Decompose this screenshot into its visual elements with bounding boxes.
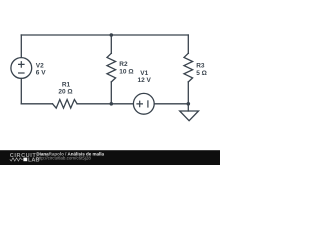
label V2 <box>36 62 44 69</box>
svg-text:V1: V1 <box>140 70 148 77</box>
wire top rail from node A to R3 branch <box>111 34 188 36</box>
label R1 <box>62 81 71 88</box>
svg-text:R3: R3 <box>196 63 205 70</box>
CircuitLab logo text CIRCUIT <box>10 153 37 159</box>
value label 6 V <box>36 70 46 77</box>
svg-text:12 V: 12 V <box>138 77 152 84</box>
node B junction dot (bottom middle) <box>110 102 114 106</box>
CircuitLab logo resistor squiggle <box>10 158 23 161</box>
wire V2 bottom stub <box>20 78 22 103</box>
CircuitLab logo text LAB <box>28 157 40 163</box>
label R3 <box>196 63 205 70</box>
value label 12 V <box>138 77 152 84</box>
wire R3 branch upper stub <box>187 35 189 53</box>
node C junction dot (ground) <box>187 102 191 106</box>
value label 10 Ω <box>119 68 133 75</box>
footer attribution line 2: circuit URL <box>36 155 91 160</box>
footer attribution line 1: username and circuit title <box>36 151 104 156</box>
wire bottom-left from V2 to R1 <box>21 103 52 105</box>
wire R3 branch lower stub <box>187 82 189 104</box>
footer bar <box>0 150 220 165</box>
label V1 <box>140 70 148 77</box>
value label 5 Ω <box>196 70 207 77</box>
svg-text:V2: V2 <box>36 62 44 69</box>
voltage source V1 <box>133 93 154 114</box>
voltage source V2 <box>11 58 32 79</box>
svg-text:6 V: 6 V <box>36 70 46 77</box>
wire from R1 to node B <box>77 103 111 105</box>
label R2 <box>119 61 128 68</box>
value label 20 Ω <box>58 88 72 95</box>
svg-text:10 Ω: 10 Ω <box>119 68 133 75</box>
svg-text:R1: R1 <box>62 81 71 88</box>
wire R2 branch lower stub <box>110 82 112 104</box>
wire V2 top stub <box>20 35 22 58</box>
node A junction dot (top) <box>110 33 114 37</box>
resistor R2 <box>107 53 116 82</box>
wire from node B to V1 <box>111 103 133 105</box>
resistor R3 <box>184 53 193 82</box>
wire from V1 to ground node <box>154 103 188 105</box>
wire top rail from V2 to node A <box>21 34 111 36</box>
wire R2 branch upper stub <box>110 35 112 53</box>
CircuitLab logo white square <box>23 158 27 162</box>
svg-text:http://circuitlab.com/c6t5j28: http://circuitlab.com/c6t5j28 <box>36 155 91 160</box>
svg-text:R2: R2 <box>119 61 128 68</box>
svg-text:20 Ω: 20 Ω <box>58 88 72 95</box>
svg-text:5 Ω: 5 Ω <box>196 70 207 77</box>
resistor R1 <box>53 100 78 109</box>
ground <box>180 104 199 121</box>
